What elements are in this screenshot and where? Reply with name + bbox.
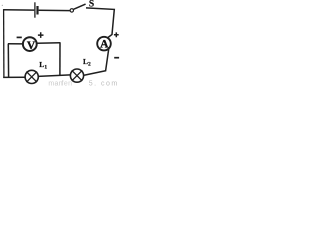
battery: long plate	[34, 2, 36, 17]
svg-text:L1: L1	[39, 60, 47, 71]
wire: switch to top-right corner and down to ammeter	[86, 8, 114, 39]
wire: left border vertical	[3, 9, 5, 78]
svg-text:5. com: 5. com	[89, 80, 119, 87]
lamp L2 cross	[72, 70, 83, 81]
wire: voltmeter right branch vertical	[59, 43, 61, 75]
lamp L1 cross	[26, 72, 37, 83]
wire: voltmeter to branch	[37, 42, 61, 45]
wire: top-left horizontal	[3, 9, 34, 11]
voltmeter + terminal sign	[38, 32, 44, 38]
svg-text:A: A	[100, 39, 109, 51]
svg-text:fen: fen	[62, 81, 73, 87]
lamp L1 circle	[25, 70, 38, 83]
wire: voltmeter left horizontal	[8, 43, 23, 45]
wire: between lamps	[38, 75, 70, 77]
ammeter - terminal sign	[114, 57, 119, 59]
svg-text:V: V	[27, 40, 36, 52]
wire: bottom-right horizontal to lamp L2	[83, 71, 106, 76]
scan speck	[2, 5, 3, 6]
wire: bottom-left horizontal	[3, 76, 25, 78]
voltmeter - terminal sign	[17, 36, 22, 38]
lamp L2 circle	[70, 69, 83, 82]
wire: ammeter down to bottom-right corner	[106, 48, 109, 70]
ammeter U A circle	[97, 37, 111, 51]
switch S pivot	[70, 9, 73, 12]
wire: voltmeter left drop to bottom	[7, 44, 9, 77]
svg-text:L2: L2	[83, 57, 91, 68]
switch S lever	[74, 4, 86, 9]
battery: short thick plate	[36, 6, 38, 15]
wire: battery to switch	[39, 9, 71, 11]
ammeter + terminal sign	[114, 32, 119, 37]
voltmeter circle	[23, 37, 37, 51]
